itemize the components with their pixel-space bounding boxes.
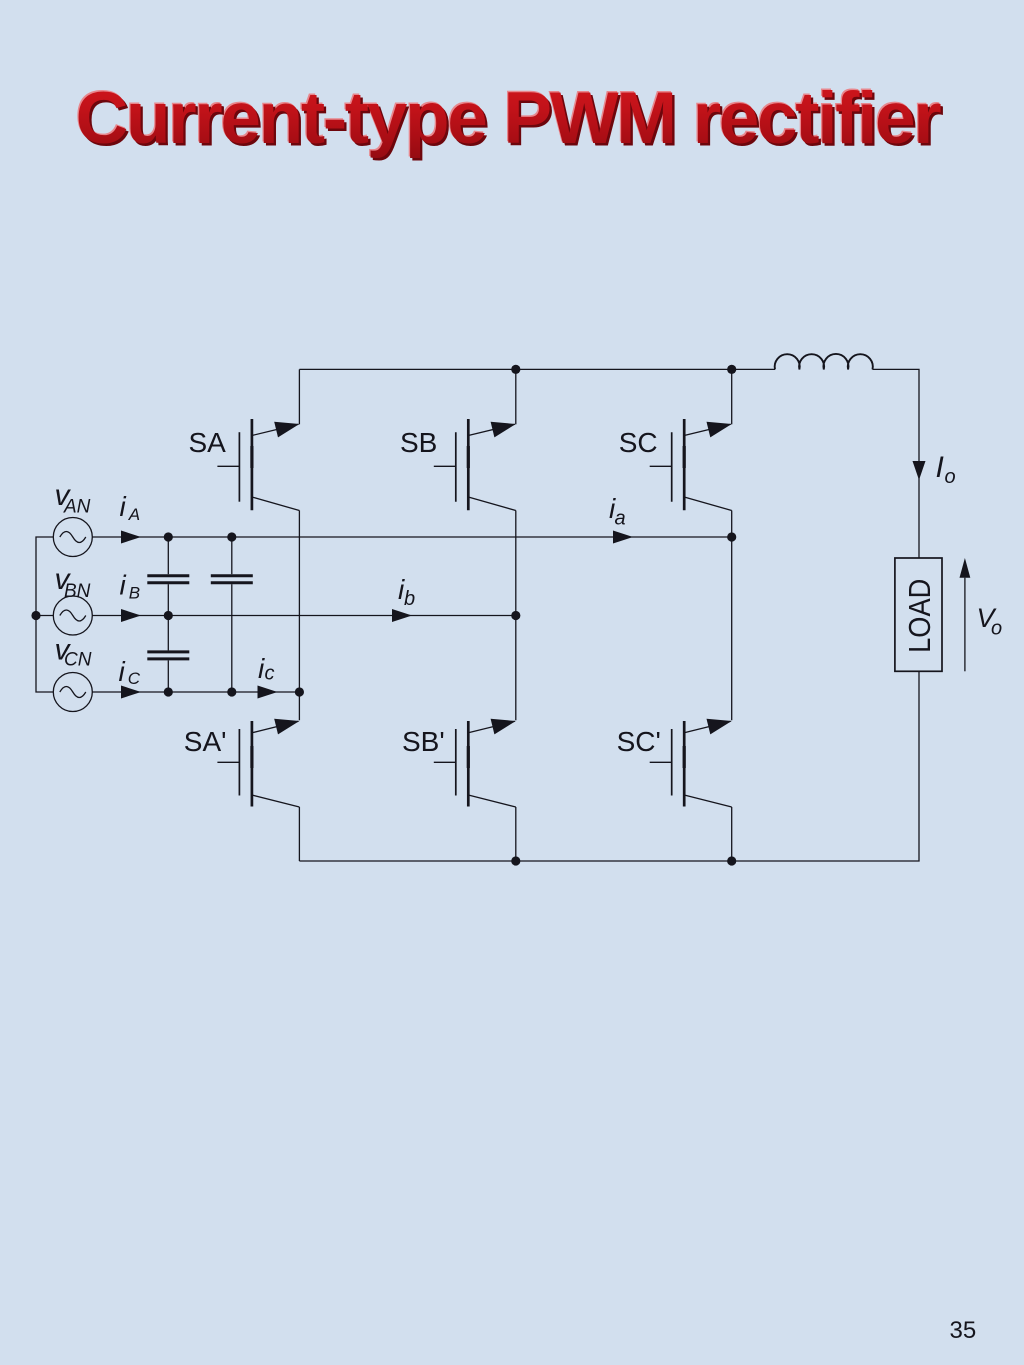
svg-text:C: C: [128, 669, 141, 688]
svg-text:AN: AN: [63, 497, 91, 518]
svg-text:SA': SA': [184, 726, 227, 757]
svg-text:o: o: [991, 618, 1002, 640]
svg-text:i: i: [119, 656, 126, 687]
svg-text:CN: CN: [64, 650, 92, 671]
svg-text:SC: SC: [619, 427, 658, 458]
svg-text:a: a: [615, 508, 626, 530]
svg-text:LOAD: LOAD: [903, 579, 937, 653]
svg-text:i: i: [120, 491, 127, 522]
svg-text:SA: SA: [189, 427, 227, 458]
svg-text:SC': SC': [617, 726, 661, 757]
svg-text:c: c: [265, 663, 275, 685]
svg-text:I: I: [936, 451, 944, 484]
svg-text:35: 35: [950, 1317, 977, 1344]
svg-text:SB: SB: [400, 427, 437, 458]
svg-text:b: b: [404, 588, 415, 610]
svg-text:i: i: [120, 570, 127, 601]
svg-text:o: o: [945, 466, 956, 488]
svg-text:BN: BN: [64, 581, 91, 602]
svg-text:B: B: [129, 584, 140, 603]
svg-text:A: A: [128, 505, 140, 524]
svg-text:SB': SB': [402, 726, 445, 757]
